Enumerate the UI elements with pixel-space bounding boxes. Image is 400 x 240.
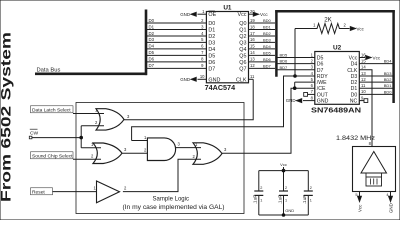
U1 pin 20 stub: [249, 13, 253, 15]
svg-text:OE: OE: [208, 12, 216, 18]
wire reset riser to OR3 input 2: [123, 159, 201, 191]
wire CW to OR2 input 1: [81, 147, 101, 149]
svg-text:CW: CW: [30, 131, 39, 137]
svg-text:2: 2: [260, 186, 262, 190]
svg-text:16: 16: [250, 37, 255, 42]
svg-text:GND: GND: [317, 99, 329, 105]
svg-text:Vcc: Vcc: [238, 12, 247, 18]
oscillator body: [353, 147, 396, 192]
svg-text:D3: D3: [208, 40, 215, 46]
svg-text:13: 13: [361, 71, 366, 76]
wire CW to OR gates: [29, 136, 32, 139]
wire BD2 from U2 D2 to bus: [359, 81, 393, 83]
wire /WE //CE tie: [294, 82, 296, 88]
svg-text:D3: D3: [351, 74, 358, 80]
svg-text:Vcc: Vcc: [357, 26, 365, 31]
svg-text:BD2: BD2: [384, 77, 393, 82]
wire Q1 to BD bus: [249, 29, 276, 31]
wire Reset to buffer: [53, 191, 97, 193]
svg-text:Q0: Q0: [239, 21, 246, 27]
wire /WE stub: [295, 81, 315, 83]
ground flag at U1 GND: [191, 77, 196, 81]
svg-text:17: 17: [250, 31, 255, 36]
svg-text:D0: D0: [208, 21, 215, 27]
AND input 1 stub: [132, 140, 148, 142]
svg-text:BD5: BD5: [263, 50, 272, 55]
svg-text:14: 14: [250, 50, 255, 55]
OR gate G2 (write select): [93, 143, 122, 164]
svg-text:1: 1: [260, 198, 262, 202]
svg-text:D1: D1: [351, 86, 358, 92]
svg-text:13: 13: [250, 57, 255, 62]
svg-text:Q5: Q5: [239, 53, 246, 59]
svg-text:D1: D1: [208, 28, 215, 34]
svg-text:D6: D6: [149, 57, 155, 62]
oscillator GND pin: [390, 192, 392, 198]
svg-text:BD2: BD2: [263, 31, 272, 36]
data bus horizontal wire: [35, 73, 147, 76]
svg-text:Data Latch Select: Data Latch Select: [32, 107, 71, 113]
wire BD3 from U2 D3 to bus: [359, 75, 393, 77]
svg-text:GND: GND: [180, 77, 190, 82]
svg-text:Vcc: Vcc: [373, 56, 381, 61]
Vcc flag at resistor: [350, 27, 355, 31]
U2 NC stub with open terminal: [359, 100, 364, 102]
svg-text:GND: GND: [285, 208, 294, 213]
wire BD1 from U2 D1 to bus: [359, 87, 393, 89]
svg-text:5: 5: [355, 193, 357, 197]
svg-text:18: 18: [250, 24, 255, 29]
svg-text:D2: D2: [149, 31, 155, 36]
wire OR1 output to U1 CLK: [124, 79, 253, 120]
port Sound Chip Select: [31, 152, 74, 159]
svg-text:D2: D2: [351, 80, 358, 86]
wire D0 from data bus to U1 pin 2: [147, 22, 207, 24]
svg-text:74AC574: 74AC574: [205, 83, 236, 92]
wire OR3 output to /WE //CE: [222, 152, 292, 154]
svg-text:Vcc: Vcc: [260, 12, 268, 17]
svg-text:15: 15: [250, 44, 255, 49]
wire Q5 to BD bus: [249, 54, 276, 56]
AND gate G3: [147, 138, 175, 161]
IC U2 SN76489AN body: [315, 52, 360, 105]
svg-text:Q2: Q2: [239, 34, 246, 40]
wire Q4 to BD bus: [249, 48, 276, 50]
svg-text:10: 10: [361, 89, 366, 94]
data bus vertical wire: [145, 10, 148, 76]
svg-text:Vcc: Vcc: [280, 162, 287, 167]
svg-text:Vcc: Vcc: [358, 204, 363, 212]
wire BD4 from U2 D4 to bus: [359, 63, 393, 65]
svg-text:Q3: Q3: [239, 40, 246, 46]
svg-text:From 6502 System: From 6502 System: [0, 32, 14, 202]
Vcc flag at U1 pin 20: [252, 13, 254, 15]
oscillator amp triangle: [361, 152, 387, 174]
svg-text:BD6: BD6: [280, 59, 289, 64]
svg-text:BD0: BD0: [384, 89, 393, 94]
svg-text:U2: U2: [333, 44, 342, 51]
ground flag at U1 OE: [191, 12, 196, 16]
svg-text:U1: U1: [223, 4, 232, 11]
svg-text:BD3: BD3: [384, 71, 393, 76]
OR gate G4 (strobe out): [193, 143, 222, 165]
svg-text:/WE: /WE: [317, 80, 327, 86]
junction CW fanout: [79, 136, 83, 140]
wire Q2 to BD bus: [249, 35, 276, 37]
svg-text:Sound Chip Select: Sound Chip Select: [32, 153, 73, 159]
capacitor C1 .1uF: [258, 171, 260, 191]
svg-text:D1: D1: [149, 24, 155, 29]
CW fanout vertical: [80, 126, 82, 148]
svg-text:CLK: CLK: [347, 68, 358, 74]
svg-text:D0: D0: [351, 92, 358, 98]
svg-text:RDY: RDY: [317, 74, 328, 80]
svg-text:BD4: BD4: [384, 59, 393, 64]
svg-text:D7: D7: [317, 68, 324, 74]
svg-text:BD4: BD4: [263, 44, 272, 49]
svg-text:BD7: BD7: [280, 65, 289, 70]
svg-text:D4: D4: [149, 44, 155, 49]
svg-text:Q4: Q4: [239, 47, 246, 53]
oscillator crystal: [365, 173, 367, 177]
svg-text:Q7: Q7: [239, 66, 246, 72]
port Reset: [31, 188, 53, 195]
svg-text:GND: GND: [180, 12, 190, 17]
wire /CE to write strobe: [291, 88, 315, 153]
resistor R1 2K: [295, 24, 350, 34]
wire D3 from data bus to U1 pin 5: [147, 41, 207, 43]
U1 pin 10 GND stub: [198, 78, 207, 80]
svg-text:BD6: BD6: [263, 57, 272, 62]
wire BD6 from bus to U2 D6: [277, 63, 315, 65]
svg-text:BD1: BD1: [263, 25, 272, 30]
wire D4 from data bus to U1 pin 6: [147, 48, 207, 50]
oscillator Vcc pin: [359, 192, 361, 198]
U2 OUT stub with open terminal: [308, 93, 315, 95]
svg-text:GND: GND: [208, 77, 220, 83]
svg-text:D7: D7: [149, 63, 155, 68]
svg-text:BD1: BD1: [384, 83, 393, 88]
svg-text:4: 4: [386, 193, 388, 197]
wire BD7 from bus to U2 D7: [277, 69, 315, 71]
sample logic enclosure: [76, 103, 244, 214]
U1 pin 1 OE stub: [198, 13, 207, 15]
svg-text:Vcc: Vcc: [349, 56, 358, 62]
svg-text:NC: NC: [350, 99, 358, 105]
svg-text:2: 2: [310, 186, 312, 190]
svg-text:10: 10: [200, 74, 205, 79]
svg-text:D4: D4: [351, 62, 358, 68]
svg-text:D5: D5: [149, 50, 155, 55]
svg-text:D7: D7: [208, 66, 215, 72]
svg-text:Reset: Reset: [32, 189, 45, 195]
svg-text:19: 19: [250, 18, 255, 23]
svg-text:OUT: OUT: [317, 92, 329, 98]
svg-text:BD0: BD0: [263, 18, 272, 23]
svg-text:Sample Logic: Sample Logic: [153, 196, 190, 203]
wire Sound Chip Select to OR2: [73, 158, 101, 160]
wire Data Latch Select to OR1: [73, 113, 104, 115]
svg-text:D2: D2: [208, 34, 215, 40]
Vcc flag at U2 pin 16: [359, 57, 365, 59]
svg-text:D4: D4: [208, 47, 215, 53]
svg-text:CLK: CLK: [236, 77, 247, 83]
decoupling top rail: [259, 170, 309, 172]
svg-text:11: 11: [250, 74, 255, 79]
wire D6 from data bus to U1 pin 8: [147, 61, 207, 63]
decoupling bottom rail: [259, 214, 309, 216]
svg-text:.1uF: .1uF: [253, 195, 259, 205]
port Data Latch Select: [31, 106, 74, 113]
capacitor C2 .1uF: [283, 171, 285, 191]
svg-text:14: 14: [361, 65, 366, 70]
capacitor C3 .1uF: [307, 171, 309, 191]
svg-text:Q6: Q6: [239, 60, 246, 66]
OR gate G1 (latch clock): [96, 109, 124, 130]
wire OR2 output to AND input 2: [122, 152, 147, 154]
wire D2 from data bus to U1 pin 4: [147, 35, 207, 37]
svg-text:2: 2: [285, 186, 287, 190]
svg-text:Data Bus: Data Bus: [37, 67, 61, 73]
svg-text:D5: D5: [317, 56, 324, 62]
svg-text:GND: GND: [286, 98, 296, 103]
svg-text:BD7: BD7: [263, 63, 272, 68]
wire D1 from data bus to U1 pin 3: [147, 29, 207, 31]
svg-text:1: 1: [310, 198, 312, 202]
svg-text:/CE: /CE: [317, 86, 326, 92]
svg-text:GND: GND: [389, 203, 394, 213]
wire Q6 to BD bus: [249, 61, 276, 63]
junction RDY/pull-up: [293, 74, 297, 78]
svg-text:12: 12: [250, 63, 255, 68]
svg-text:D6: D6: [317, 62, 324, 68]
wire Q7 to BD bus: [249, 67, 276, 69]
svg-text:BD5: BD5: [280, 53, 289, 58]
wire U2 CLK to oscillator: [359, 70, 372, 147]
svg-text:.1uF: .1uF: [277, 195, 283, 205]
BD bus vertical (left): [275, 10, 278, 77]
wire RDY to pull-up / AND gate: [132, 76, 315, 141]
GND flag on cap rail: [282, 213, 286, 217]
svg-text:Q1: Q1: [239, 28, 246, 34]
wire D5 from data bus to U1 pin 7: [147, 54, 207, 56]
wire RDY riser to resistor: [294, 29, 296, 77]
svg-text:12: 12: [361, 77, 366, 82]
svg-text:11: 11: [361, 83, 366, 88]
svg-text:(In my case implemented via GA: (In my case implemented via GAL): [123, 204, 225, 211]
wire AND output to OR3: [176, 147, 201, 149]
Vcc flag on cap rail: [282, 169, 286, 173]
wire BD0 from U2 D0 to bus: [359, 93, 393, 95]
junction /WE //CE tie: [293, 86, 297, 90]
IC U1 74AC574 body: [206, 12, 248, 83]
svg-text:D3: D3: [149, 37, 155, 42]
buffer G5 (reset): [97, 181, 120, 203]
ground flag at U2 GND: [303, 100, 315, 102]
svg-text:SN76489AN: SN76489AN: [311, 105, 361, 114]
wire Q3 to BD bus: [249, 41, 276, 43]
wire BD5 from bus to U2 D5: [277, 57, 315, 59]
svg-text:D6: D6: [208, 60, 215, 66]
svg-text:2K: 2K: [324, 17, 332, 24]
BD bus vertical (right): [392, 10, 395, 103]
BD bus horizontal (top): [275, 10, 395, 13]
svg-text:.1uF: .1uF: [302, 195, 308, 205]
svg-text:D5: D5: [208, 53, 215, 59]
svg-text:BD3: BD3: [263, 37, 272, 42]
U1 pin 11 stub: [249, 78, 254, 80]
wire CW to OR1 input 2: [81, 125, 104, 127]
svg-text:D0: D0: [149, 18, 155, 23]
wire D7 from data bus to U1 pin 9: [147, 67, 207, 69]
wire Q0 to BD bus: [249, 22, 276, 24]
svg-text:1: 1: [285, 198, 287, 202]
